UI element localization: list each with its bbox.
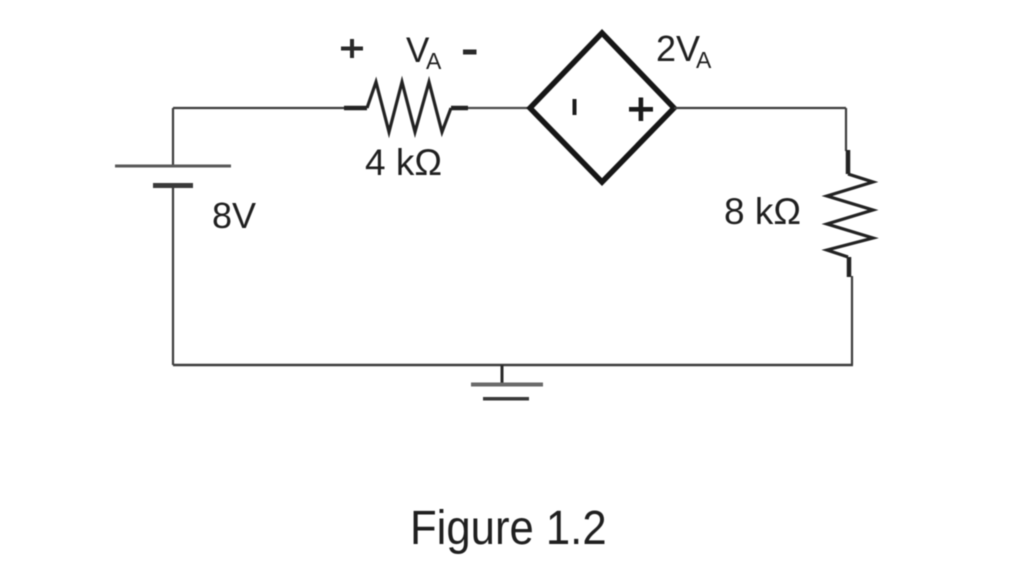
label 2VA <box>656 28 712 73</box>
wire dependent source to top-right corner <box>674 107 846 109</box>
wire bottom <box>173 364 853 366</box>
wire top-left (battery + to R1) <box>173 107 367 109</box>
svg-text:4 kΩ: 4 kΩ <box>365 142 442 183</box>
ground bar 1 <box>471 383 543 387</box>
label + (left of VA) <box>341 39 363 58</box>
wire top-right corner down to R2 <box>846 108 848 174</box>
svg-text:2V: 2V <box>656 28 700 69</box>
wire left vertical (top corner to battery) <box>172 108 174 167</box>
wire battery to bottom-left corner <box>172 186 174 365</box>
caption Figure 1.2 <box>410 500 607 554</box>
minus tick inside diamond <box>573 99 577 115</box>
label VA <box>406 31 442 74</box>
plus sign inside diamond <box>629 98 653 122</box>
svg-text:8 kΩ: 8 kΩ <box>724 191 801 232</box>
battery V1 long plate <box>115 165 231 168</box>
label - (right of VA) <box>463 50 477 55</box>
svg-text:A: A <box>426 48 442 74</box>
wire R1 to dependent source <box>451 106 532 111</box>
resistor R1 4 kOhm zigzag <box>367 82 451 132</box>
resistor R2 8 kOhm vertical zigzag <box>827 174 873 257</box>
ground stub wire <box>501 365 504 385</box>
wire R2 to bottom-right corner <box>849 257 852 365</box>
svg-text:A: A <box>696 47 712 73</box>
svg-text:Figure 1.2: Figure 1.2 <box>410 500 607 554</box>
dependent source U1 diamond 2VA <box>530 33 674 182</box>
ground bar 2 <box>483 397 529 401</box>
svg-text:8V: 8V <box>212 195 256 236</box>
battery V1 short plate <box>153 183 193 188</box>
